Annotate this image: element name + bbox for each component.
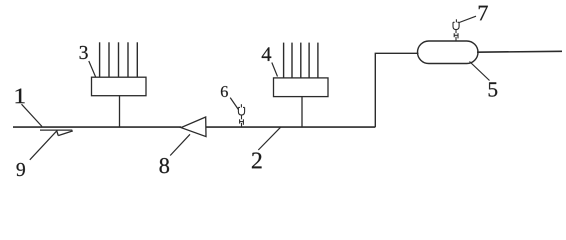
wire riser pipe: [375, 53, 418, 127]
leader line for label 2: [258, 127, 281, 150]
label 6: [221, 86, 228, 97]
leader line for label 9: [30, 130, 58, 160]
label 8: [160, 158, 170, 173]
pump 8 (triangle symbol): [181, 117, 206, 137]
distributor 3 nozzle tines: [100, 42, 138, 77]
valve 7 on tank top: [453, 19, 459, 41]
leader line for label 8: [170, 134, 190, 155]
leader line for label 5: [470, 62, 490, 81]
label 4: [262, 47, 272, 60]
valve 6 on main pipe: [238, 104, 244, 126]
wire outlet pipe right of tank: [477, 50, 562, 53]
label 3: [80, 46, 88, 59]
wire branch from pipe to distributor 4: [301, 97, 303, 128]
distributor 3 header box: [92, 77, 147, 96]
wire main pipe left segment: [13, 126, 181, 128]
label 2: [252, 153, 262, 169]
leader line for label 1: [22, 104, 43, 126]
flow arrow 9 under pipe: [40, 130, 73, 136]
leader line for label 7: [459, 16, 476, 22]
label 7: [479, 6, 488, 21]
distributor 4 header box: [274, 78, 329, 97]
distributor 4 nozzle tines: [284, 43, 318, 78]
leader line for label 4: [272, 63, 278, 77]
label 1: [16, 89, 25, 103]
label 5: [489, 82, 498, 96]
leader line for label 3: [89, 61, 96, 77]
tank 5 (horizontal separator vessel): [418, 41, 479, 64]
label 9: [17, 163, 25, 176]
leader line for label 6: [230, 98, 238, 110]
wire main pipe middle segment: [206, 126, 375, 128]
wire branch from pipe to distributor 3: [119, 96, 121, 127]
